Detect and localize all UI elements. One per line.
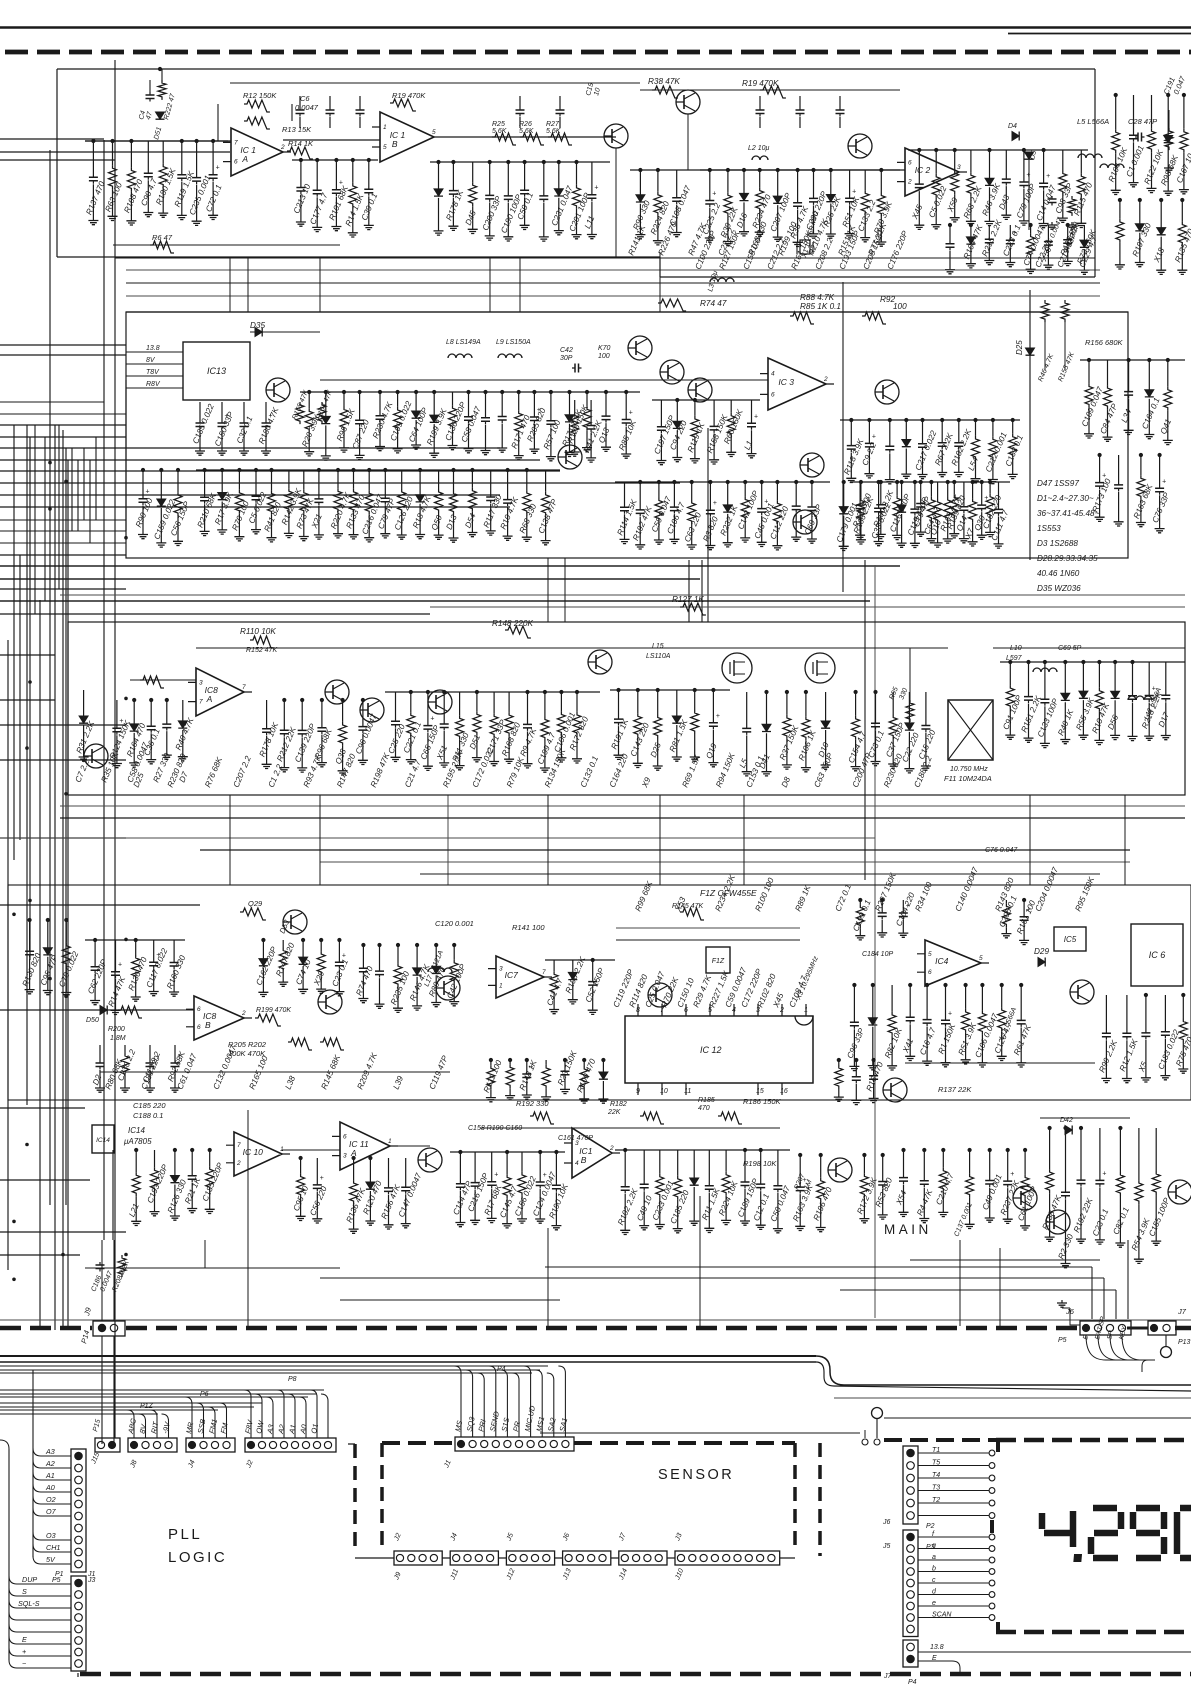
svg-text:C185 220: C185 220: [133, 1101, 166, 1110]
svg-text:3: 3: [199, 679, 203, 686]
svg-text:O3: O3: [46, 1531, 56, 1540]
svg-text:6: 6: [684, 1007, 688, 1014]
svg-text:+: +: [948, 1010, 952, 1017]
svg-text:P8: P8: [288, 1376, 297, 1383]
svg-text:P13: P13: [1178, 1339, 1191, 1346]
svg-text:+: +: [984, 495, 988, 502]
svg-text:DUP: DUP: [22, 1575, 37, 1584]
svg-text:B: B: [392, 139, 398, 149]
svg-text:T8V: T8V: [146, 369, 160, 376]
svg-text:3: 3: [499, 966, 503, 973]
svg-text:R199 470K: R199 470K: [256, 1007, 291, 1014]
svg-text:b: b: [932, 1566, 936, 1573]
svg-text:R74 47: R74 47: [700, 299, 727, 308]
svg-text:C42: C42: [560, 347, 573, 354]
svg-text:+: +: [342, 952, 346, 959]
svg-text:c: c: [932, 1577, 936, 1584]
svg-text:CH1: CH1: [46, 1543, 60, 1552]
svg-text:O7: O7: [46, 1507, 57, 1516]
svg-text:30P: 30P: [560, 355, 573, 362]
svg-text:LS110A: LS110A: [646, 653, 671, 660]
svg-text:1: 1: [499, 982, 503, 989]
svg-text:IC14: IC14: [96, 1137, 110, 1144]
svg-text:μA7805: μA7805: [123, 1137, 152, 1146]
svg-text:5: 5: [432, 129, 436, 136]
svg-text:5.6K: 5.6K: [519, 128, 534, 135]
svg-text:0.0047: 0.0047: [295, 103, 319, 112]
svg-text:g: g: [932, 1543, 936, 1550]
svg-text:R156 680K: R156 680K: [1085, 338, 1124, 347]
svg-text:R200: R200: [108, 1026, 125, 1033]
svg-text:5.6K: 5.6K: [546, 128, 561, 135]
svg-text:D1~2.4~27.30~: D1~2.4~27.30~: [1037, 494, 1094, 503]
svg-text:D47 1SS97: D47 1SS97: [1037, 479, 1079, 488]
svg-text:470: 470: [698, 1105, 710, 1112]
svg-text:J7: J7: [883, 1673, 893, 1680]
svg-text:1: 1: [388, 1138, 392, 1145]
svg-text:SQL-S: SQL-S: [18, 1599, 40, 1608]
svg-text:+: +: [118, 962, 122, 969]
svg-text:L597: L597: [1006, 655, 1023, 662]
svg-text:J3: J3: [87, 1577, 96, 1584]
svg-text:IC7: IC7: [505, 970, 518, 980]
svg-text:E: E: [22, 1635, 27, 1644]
svg-text:C6: C6: [300, 94, 310, 103]
svg-text:8: 8: [636, 1007, 640, 1014]
svg-text:+: +: [629, 410, 633, 417]
svg-text:+: +: [716, 713, 720, 720]
svg-text:R186 150K: R186 150K: [743, 1097, 782, 1106]
svg-text:8V: 8V: [146, 357, 156, 364]
svg-text:5: 5: [708, 1007, 712, 1014]
svg-text:R192 330: R192 330: [516, 1099, 549, 1108]
svg-text:PLL: PLL: [168, 1526, 202, 1543]
svg-text:7: 7: [199, 699, 203, 706]
svg-text:R198 10K: R198 10K: [743, 1159, 777, 1168]
svg-text:F1Z: F1Z: [712, 958, 725, 965]
svg-text:R14 1K: R14 1K: [288, 139, 314, 148]
svg-text:+: +: [320, 1175, 324, 1182]
svg-text:10.750 MHz: 10.750 MHz: [950, 766, 988, 773]
svg-text:D25: D25: [1015, 340, 1024, 355]
svg-text:7: 7: [234, 139, 238, 146]
svg-text:MAIN: MAIN: [884, 1222, 932, 1237]
svg-text:P5: P5: [52, 1577, 61, 1584]
svg-text:5: 5: [928, 951, 932, 958]
svg-text:T1: T1: [932, 1447, 940, 1454]
svg-text:5V: 5V: [46, 1555, 56, 1564]
svg-text:+: +: [430, 716, 434, 723]
svg-text:L8 LS149A: L8 LS149A: [446, 339, 481, 346]
svg-text:T4: T4: [932, 1472, 940, 1479]
svg-text:1S553: 1S553: [1037, 524, 1061, 533]
svg-text:13.8: 13.8: [930, 1644, 944, 1651]
svg-text:T5: T5: [932, 1460, 940, 1467]
svg-text:IC 10: IC 10: [243, 1147, 264, 1157]
svg-text:P2: P2: [926, 1523, 935, 1530]
svg-text:C158 R190 C160: C158 R190 C160: [468, 1125, 522, 1132]
svg-text:F11 10M24DA: F11 10M24DA: [944, 774, 992, 783]
svg-text:SCAN: SCAN: [932, 1612, 952, 1619]
svg-text:C184 10P: C184 10P: [862, 951, 893, 958]
svg-text:2: 2: [609, 1145, 614, 1152]
svg-text:e: e: [932, 1600, 936, 1607]
svg-text:+: +: [712, 191, 716, 198]
svg-text:A: A: [206, 694, 213, 704]
svg-text:IC14: IC14: [128, 1126, 145, 1135]
svg-text:6: 6: [771, 391, 775, 398]
svg-text:P1Z: P1Z: [140, 1403, 154, 1410]
svg-text:3: 3: [957, 164, 961, 171]
svg-text:T3: T3: [932, 1485, 940, 1492]
svg-text:D50: D50: [86, 1017, 99, 1024]
svg-text:J5: J5: [882, 1543, 891, 1550]
svg-text:+: +: [594, 185, 598, 192]
svg-text:4: 4: [575, 1160, 579, 1167]
svg-text:10: 10: [660, 1088, 668, 1095]
svg-text:R137 22K: R137 22K: [938, 1085, 972, 1094]
svg-text:40.46 1N60: 40.46 1N60: [1037, 569, 1080, 578]
svg-text:R19 470K: R19 470K: [742, 79, 779, 88]
svg-text:R26: R26: [519, 121, 532, 128]
svg-text:+: +: [494, 1172, 498, 1179]
svg-text:R110 10K: R110 10K: [240, 627, 276, 636]
svg-text:+: +: [872, 433, 876, 440]
svg-text:D29: D29: [1034, 947, 1049, 956]
svg-text:5: 5: [383, 144, 387, 151]
svg-text:−: −: [22, 1659, 26, 1668]
svg-text:D42: D42: [1060, 1117, 1073, 1124]
svg-text:O2: O2: [46, 1495, 56, 1504]
svg-text:6: 6: [928, 969, 932, 976]
svg-text:R127 1K: R127 1K: [672, 595, 704, 604]
svg-text:+: +: [146, 489, 150, 496]
svg-text:J7: J7: [1177, 1307, 1187, 1316]
svg-text:5: 5: [979, 955, 983, 962]
svg-text:2: 2: [280, 144, 285, 151]
svg-text:C28 47P: C28 47P: [1128, 117, 1157, 126]
svg-text:C161 470P: C161 470P: [558, 1135, 593, 1142]
svg-text:SENSOR: SENSOR: [658, 1467, 734, 1483]
svg-text:7: 7: [542, 969, 546, 976]
svg-text:9: 9: [636, 1088, 640, 1095]
svg-text:2: 2: [241, 1010, 246, 1017]
svg-text:+: +: [1162, 478, 1166, 485]
svg-text:100: 100: [893, 302, 907, 311]
svg-text:R152 47K: R152 47K: [246, 647, 277, 654]
svg-text:L10: L10: [1010, 645, 1022, 652]
svg-text:5.6K: 5.6K: [492, 128, 507, 135]
svg-text:2: 2: [907, 179, 912, 186]
svg-text:C188 0.1: C188 0.1: [133, 1111, 163, 1120]
svg-text:IC 12: IC 12: [700, 1045, 722, 1055]
svg-text:L9 LS150A: L9 LS150A: [496, 339, 531, 346]
svg-text:D35 WZ036: D35 WZ036: [1037, 584, 1081, 593]
svg-text:R8V: R8V: [146, 381, 161, 388]
svg-text:+: +: [1102, 1170, 1106, 1177]
svg-text:T2: T2: [932, 1497, 940, 1504]
svg-text:+: +: [22, 1647, 26, 1656]
svg-text:15: 15: [756, 1088, 764, 1095]
svg-text:C69 5P: C69 5P: [1058, 645, 1082, 652]
svg-text:D35: D35: [250, 321, 265, 330]
svg-text:R182: R182: [610, 1101, 627, 1108]
svg-text:B: B: [581, 1155, 587, 1165]
svg-text:100: 100: [598, 353, 610, 360]
svg-text:A1: A1: [45, 1471, 55, 1480]
svg-text:1: 1: [383, 124, 387, 131]
svg-text:J6: J6: [1065, 1307, 1075, 1316]
svg-text:22K: 22K: [607, 1109, 621, 1116]
svg-text:IC 2: IC 2: [915, 165, 931, 175]
svg-text:1.8M: 1.8M: [110, 1035, 126, 1042]
svg-text:13.8: 13.8: [146, 345, 160, 352]
svg-text:1: 1: [280, 1146, 284, 1153]
svg-text:IC5: IC5: [1064, 935, 1077, 944]
svg-text:R185: R185: [698, 1097, 715, 1104]
svg-text:7: 7: [242, 684, 246, 691]
svg-text:IC 3: IC 3: [778, 377, 794, 387]
svg-text:D28.29.33.34.35: D28.29.33.34.35: [1037, 554, 1098, 563]
svg-text:6: 6: [343, 1133, 347, 1140]
svg-text:R85 1K 0.1: R85 1K 0.1: [800, 302, 841, 311]
svg-text:IC4: IC4: [935, 956, 949, 966]
svg-text:L15: L15: [652, 643, 664, 650]
svg-text:B: B: [205, 1020, 211, 1030]
svg-text:P5: P5: [1058, 1337, 1067, 1344]
svg-text:11: 11: [684, 1088, 691, 1095]
svg-text:E: E: [932, 1655, 937, 1662]
svg-text:R12 150K: R12 150K: [243, 91, 277, 100]
svg-text:J6: J6: [882, 1519, 891, 1526]
svg-text:P4: P4: [497, 1366, 506, 1373]
svg-text:7: 7: [237, 1142, 241, 1149]
svg-text:2: 2: [823, 376, 828, 383]
svg-text:1: 1: [804, 1007, 808, 1014]
svg-text:R13 15K: R13 15K: [282, 125, 312, 134]
svg-text:3: 3: [343, 1153, 347, 1160]
svg-text:4: 4: [732, 1007, 736, 1014]
svg-text:+: +: [1046, 173, 1050, 180]
svg-text:L5 L566A: L5 L566A: [1077, 117, 1109, 126]
svg-text:D4: D4: [1008, 123, 1017, 130]
svg-text:LOGIC: LOGIC: [168, 1549, 227, 1566]
svg-text:R27: R27: [546, 121, 560, 128]
svg-text:6: 6: [908, 159, 912, 166]
svg-text:Q29: Q29: [248, 899, 263, 908]
svg-text:P6: P6: [200, 1391, 209, 1398]
svg-text:C120 0.001: C120 0.001: [435, 919, 474, 928]
svg-text:C76 0.047: C76 0.047: [985, 847, 1018, 854]
svg-text:6: 6: [197, 1006, 201, 1013]
svg-text:S: S: [22, 1587, 27, 1596]
svg-text:R88 4.7K: R88 4.7K: [800, 293, 835, 302]
svg-text:A0: A0: [45, 1483, 55, 1492]
svg-text:+: +: [754, 413, 758, 420]
svg-text:4: 4: [771, 371, 775, 378]
svg-text:A: A: [241, 154, 248, 164]
svg-text:R6 47: R6 47: [152, 233, 173, 242]
svg-text:+: +: [216, 165, 220, 172]
svg-text:+: +: [713, 500, 717, 507]
svg-text:A2: A2: [45, 1459, 55, 1468]
svg-text:3: 3: [756, 1007, 760, 1014]
svg-text:R19 470K: R19 470K: [392, 91, 426, 100]
svg-text:D3 1S2688: D3 1S2688: [1037, 539, 1078, 548]
svg-text:R141 100: R141 100: [512, 923, 545, 932]
svg-text:R38 47K: R38 47K: [648, 77, 680, 86]
svg-text:+: +: [1010, 1171, 1014, 1178]
svg-text:+: +: [852, 188, 856, 195]
svg-text:6: 6: [197, 1024, 201, 1031]
svg-text:R25: R25: [492, 121, 505, 128]
svg-text:a: a: [932, 1554, 936, 1561]
svg-text:2: 2: [236, 1160, 241, 1167]
svg-text:+: +: [1026, 172, 1030, 179]
svg-text:L2 10μ: L2 10μ: [748, 145, 770, 152]
svg-text:R148 220K: R148 220K: [492, 619, 534, 628]
svg-text:P4: P4: [908, 1679, 917, 1684]
svg-text:6: 6: [234, 159, 238, 166]
svg-text:A3: A3: [45, 1447, 55, 1456]
svg-text:IC13: IC13: [207, 366, 226, 376]
svg-text:K70: K70: [598, 345, 611, 352]
svg-text:IC 6: IC 6: [1149, 950, 1166, 960]
svg-text:16: 16: [780, 1088, 788, 1095]
